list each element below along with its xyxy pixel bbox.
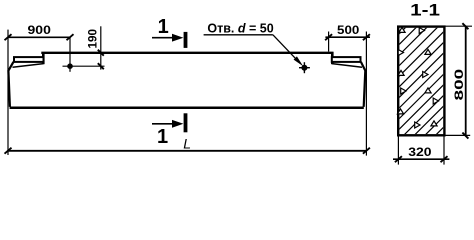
svg-text:320: 320 [408,146,432,159]
svg-text:L: L [183,136,191,152]
svg-text:190: 190 [86,29,99,49]
svg-text:800: 800 [453,68,466,100]
svg-text:1: 1 [158,16,169,38]
svg-text:900: 900 [28,24,52,37]
svg-text:1-1: 1-1 [410,0,440,19]
svg-text:1: 1 [157,126,168,148]
svg-text:Отв. d = 50: Отв. d = 50 [207,22,273,36]
svg-text:500: 500 [337,24,360,37]
